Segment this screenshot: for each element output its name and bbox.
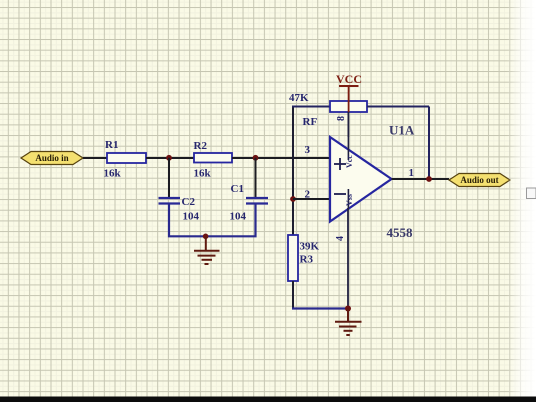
capacitor C2 — [159, 196, 200, 223]
svg-text:16k: 16k — [194, 168, 212, 180]
op-amp U1A triangle — [330, 123, 415, 241]
svg-text:U1A: U1A — [389, 123, 415, 138]
svg-text:4558: 4558 — [387, 225, 414, 240]
svg-text:R1: R1 — [105, 139, 118, 151]
svg-text:VCC: VCC — [336, 72, 362, 86]
wire Audio in to R1 — [83, 157, 107, 159]
wire node A down to C2 — [168, 158, 170, 198]
op-amp minus input mark — [334, 193, 346, 195]
wire feedback vertical to output — [428, 107, 430, 180]
pin 8 — [336, 112, 348, 137]
svg-text:R2: R2 — [194, 140, 208, 152]
svg-text:104: 104 — [183, 211, 200, 223]
svg-text:2: 2 — [305, 189, 311, 201]
svg-text:C2: C2 — [182, 196, 196, 208]
svg-text:104: 104 — [230, 211, 247, 223]
ground GND2 — [335, 309, 362, 336]
ground GND1 — [194, 236, 220, 264]
resistor R2 — [194, 140, 233, 180]
svg-text:Vcc: Vcc — [345, 155, 354, 168]
svg-text:3: 3 — [305, 144, 311, 156]
port Audio in — [21, 152, 83, 165]
wire R3 to pin 4 — [292, 307, 348, 309]
svg-text:Vss: Vss — [345, 194, 354, 206]
wire pin 1 output — [392, 178, 450, 180]
svg-text:4: 4 — [335, 236, 346, 241]
small gray box right edge — [527, 188, 536, 199]
op-amp plus input mark — [334, 158, 346, 170]
junction node B (R2/C1/pin3) — [253, 155, 259, 161]
right edge white fade — [507, 0, 536, 402]
junction node D (pin 2) — [290, 196, 296, 202]
bottom black bar — [0, 397, 536, 403]
port Audio out — [449, 174, 510, 187]
op-amp Vcc hidden-pin mark — [345, 137, 354, 168]
svg-text:8: 8 — [336, 116, 347, 121]
capacitor C1 — [230, 183, 269, 223]
svg-text:C1: C1 — [231, 183, 244, 195]
junction node A (R1/R2/C2) — [166, 155, 172, 161]
svg-text:39K: 39K — [300, 241, 320, 253]
resistor R1 — [104, 139, 147, 180]
wire RF-left / pin2 / R3 vertical — [292, 107, 294, 236]
wire pin 2 — [293, 198, 330, 200]
resistor RF — [289, 92, 367, 128]
svg-text:Audio in: Audio in — [35, 153, 68, 163]
junction node E (output) — [426, 176, 432, 182]
svg-text:47K: 47K — [289, 92, 309, 104]
power VCC — [336, 72, 362, 112]
svg-text:R3: R3 — [300, 254, 314, 266]
svg-text:16k: 16k — [104, 168, 122, 180]
wire R2 to pin 3 — [232, 157, 330, 159]
wire capacitor ground bus — [169, 204, 256, 237]
wire RF right — [367, 106, 429, 108]
junction node C (cap ground) — [203, 234, 209, 240]
wire R1 to R2 — [146, 157, 194, 159]
svg-text:RF: RF — [303, 116, 318, 128]
op-amp Vss hidden-pin mark — [345, 189, 354, 208]
svg-text:Audio out: Audio out — [460, 175, 498, 185]
wire node B down to C1 — [255, 158, 257, 198]
junction node F (pin4/R3/gnd) — [345, 306, 351, 312]
wire R3 bottom — [292, 281, 294, 309]
pin 4 — [335, 208, 348, 309]
wire RF left — [292, 106, 330, 108]
resistor R3 — [288, 235, 320, 281]
svg-text:1: 1 — [409, 167, 415, 179]
